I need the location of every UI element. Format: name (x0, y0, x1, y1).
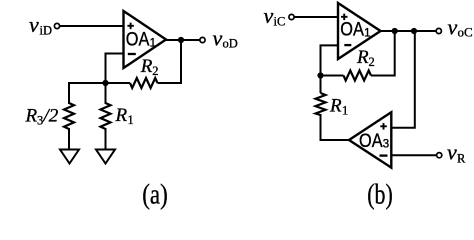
minus sign OA1 (b) (344, 44, 351, 46)
svg-text:iD: iD (40, 24, 53, 38)
svg-text:v: v (447, 140, 457, 165)
plus sign OA3 (380, 123, 387, 130)
terminal viC (289, 14, 294, 19)
op-amp OA3 (349, 112, 391, 167)
node viD label (29, 12, 52, 38)
plus sign OA1 (127, 23, 133, 30)
plus sign OA1 (b) (341, 14, 348, 21)
label R1 (115, 105, 134, 127)
wire viD to OA1 + input (60, 25, 124, 27)
svg-text:2: 2 (369, 55, 375, 69)
svg-text:v: v (29, 12, 39, 37)
svg-text:3: 3 (383, 139, 389, 151)
junction output node 2 (411, 28, 417, 34)
resistor R3/2 (64, 103, 74, 129)
svg-text:(b): (b) (367, 179, 393, 211)
junction output node (178, 37, 184, 43)
svg-text:R: R (356, 47, 369, 68)
wire OA3 - input to vR (391, 154, 436, 156)
wire R1 to OA3 output (321, 114, 350, 140)
wire R2 to inverting node (b) (321, 75, 344, 77)
wire OA1 inverting input (b) (321, 45, 339, 75)
svg-text:R: R (140, 56, 153, 77)
svg-text:R: R (25, 106, 38, 127)
label R2 (b) (356, 47, 375, 69)
label R3/2 (25, 106, 59, 128)
svg-text:/2: /2 (43, 106, 59, 127)
resistor R2 (b) (344, 71, 372, 81)
wire inverting node down to R1 (b) (320, 76, 322, 94)
label R2 (140, 56, 159, 78)
wire inverting node down to R1 (105, 83, 107, 104)
svg-text:1: 1 (128, 113, 134, 127)
svg-text:R: R (329, 96, 342, 117)
terminal viD (54, 23, 59, 28)
wire R2 to inverting node (106, 82, 131, 84)
wire viC to OA1 + input (294, 16, 338, 18)
op-amp OA1 (124, 11, 167, 68)
minus sign OA1 (128, 53, 136, 55)
svg-text:(a): (a) (142, 179, 168, 211)
svg-text:v: v (213, 26, 223, 51)
svg-text:oC: oC (458, 25, 473, 40)
svg-text:OA: OA (359, 130, 383, 152)
wire R1 to ground (105, 128, 107, 150)
junction inverting node (102, 80, 108, 86)
svg-text:3: 3 (37, 114, 43, 128)
svg-text:1: 1 (150, 37, 156, 49)
wire R3/2 to ground (68, 128, 70, 150)
svg-text:R: R (457, 152, 466, 166)
resistor R1 (b) (316, 93, 326, 115)
node vR label (447, 140, 466, 166)
svg-text:R: R (115, 105, 128, 126)
terminal voC (436, 28, 441, 33)
label R1 (b) (329, 96, 348, 118)
svg-text:1: 1 (364, 27, 370, 39)
junction output node 1 (392, 28, 398, 34)
terminal vR (437, 153, 442, 158)
svg-text:OA: OA (126, 29, 150, 51)
svg-text:OA: OA (340, 19, 364, 41)
resistor R2 (130, 78, 158, 88)
svg-text:oD: oD (223, 37, 238, 51)
wire OA1 inverting input (106, 54, 124, 84)
node viC label (264, 3, 286, 29)
wire OA3 + input up to output node 2 (391, 31, 415, 128)
resistor R1 (101, 103, 111, 129)
node voD label (213, 26, 238, 51)
svg-text:iC: iC (274, 15, 286, 29)
svg-text:v: v (448, 15, 458, 40)
svg-text:2: 2 (152, 64, 158, 78)
node voC label (448, 15, 473, 40)
wire output node down to R2 (b) (371, 31, 395, 76)
junction inverting node (b) (317, 72, 323, 78)
wire inverting node to R3/2 (69, 83, 106, 104)
label OA3 (359, 130, 389, 152)
wire OA1 output (166, 39, 200, 41)
label OA1 (126, 29, 156, 51)
terminal voD (200, 37, 205, 42)
wire OA1 output (b) (381, 30, 437, 32)
wire output node down to R2 (158, 40, 182, 83)
svg-text:v: v (264, 3, 274, 28)
label OA1 (b) (340, 19, 370, 41)
ground (left) (60, 150, 79, 164)
ground (right) (96, 150, 115, 164)
op-amp OA1 (b) (338, 3, 381, 59)
minus sign OA3 (380, 154, 388, 156)
svg-text:1: 1 (342, 104, 348, 118)
